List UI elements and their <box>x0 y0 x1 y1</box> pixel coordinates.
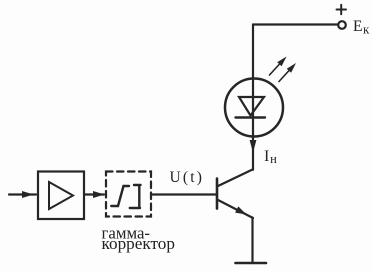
input arrowhead <box>22 191 34 198</box>
transistor collector lead <box>218 170 253 187</box>
svg-text:Iн: Iн <box>264 148 277 166</box>
svg-text:корректор: корректор <box>102 234 175 253</box>
load current arrowhead Iн <box>250 140 257 153</box>
corrector transfer-curve symbol left part <box>111 186 129 206</box>
plus sign <box>337 5 347 14</box>
vertical wire: top rail to collector corner <box>252 25 254 170</box>
top supply wire <box>253 23 338 25</box>
arrowhead amp to corrector <box>93 191 105 198</box>
LED cathode bar <box>236 116 266 118</box>
input wire <box>9 193 36 195</box>
svg-text:Eк: Eк <box>353 18 370 37</box>
LED circle <box>225 79 283 137</box>
transistor emitter lead <box>218 200 253 218</box>
emitter arrowhead <box>235 206 246 214</box>
light emission arrow 1 <box>270 64 281 76</box>
amplifier box <box>38 172 84 220</box>
gamma corrector dashed box <box>106 172 151 217</box>
transistor base bar <box>216 179 219 209</box>
wire corrector to transistor base <box>151 193 216 195</box>
light emission arrow 2 <box>279 70 290 82</box>
amplifier triangle <box>49 182 73 209</box>
ground bar <box>236 262 267 265</box>
supply terminal circle <box>338 21 346 29</box>
svg-text:U(t): U(t) <box>170 169 205 186</box>
wire amp to corrector <box>84 193 104 195</box>
corrector transfer-curve symbol right part <box>130 185 141 208</box>
LED diode triangle <box>239 97 264 116</box>
emitter wire down <box>251 218 253 264</box>
